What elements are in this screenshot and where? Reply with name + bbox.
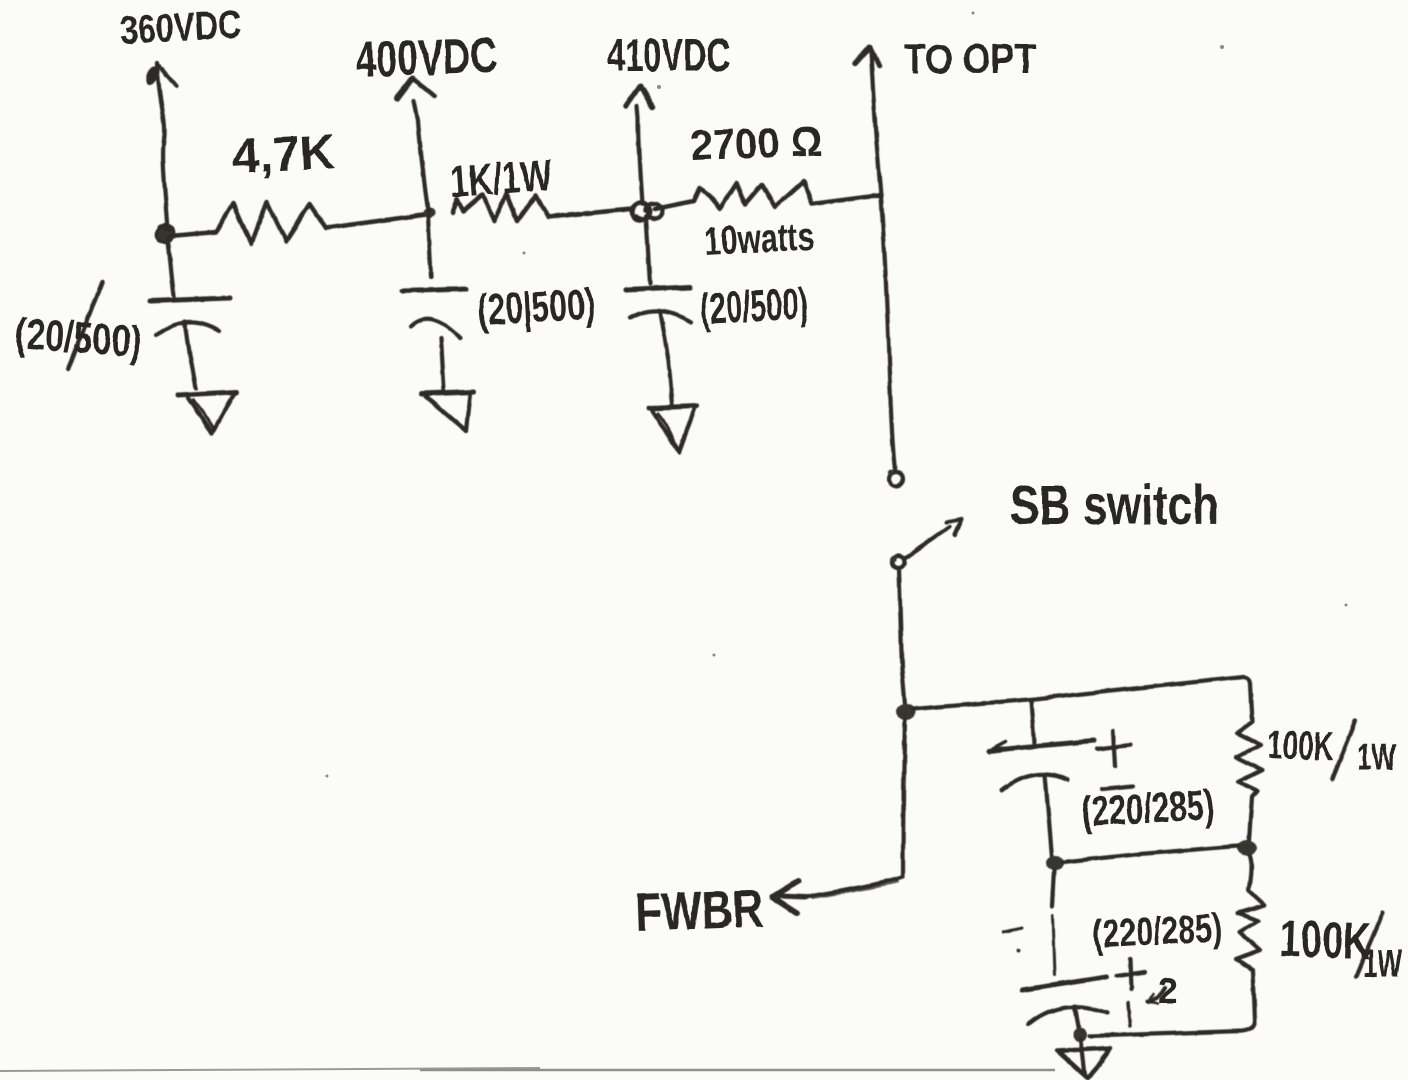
svg-text:(220/285): (220/285): [1080, 781, 1215, 835]
svg-text:410VDC: 410VDC: [607, 29, 730, 81]
svg-text:(20/500): (20/500): [13, 309, 143, 367]
svg-text:360VDC: 360VDC: [119, 3, 242, 53]
svg-text:2700 Ω: 2700 Ω: [690, 117, 824, 169]
svg-text:1W: 1W: [1357, 737, 1396, 779]
svg-text:SB switch: SB switch: [1010, 473, 1219, 536]
svg-text:4,7K: 4,7K: [231, 126, 337, 184]
svg-text:10watts: 10watts: [703, 214, 815, 264]
svg-text:(20/500): (20/500): [699, 279, 809, 334]
svg-text:(20|500): (20|500): [476, 280, 596, 336]
svg-text:1K/1W: 1K/1W: [448, 151, 554, 207]
svg-text:FWBR: FWBR: [634, 879, 764, 943]
svg-text:400VDC: 400VDC: [354, 27, 498, 88]
svg-text:TO OPT: TO OPT: [904, 35, 1036, 82]
svg-text:100K: 100K: [1267, 723, 1335, 769]
svg-text:100K: 100K: [1279, 910, 1372, 971]
svg-text:(220/285): (220/285): [1091, 906, 1223, 957]
svg-text:2: 2: [1158, 970, 1178, 1011]
svg-text:1W: 1W: [1363, 942, 1402, 986]
